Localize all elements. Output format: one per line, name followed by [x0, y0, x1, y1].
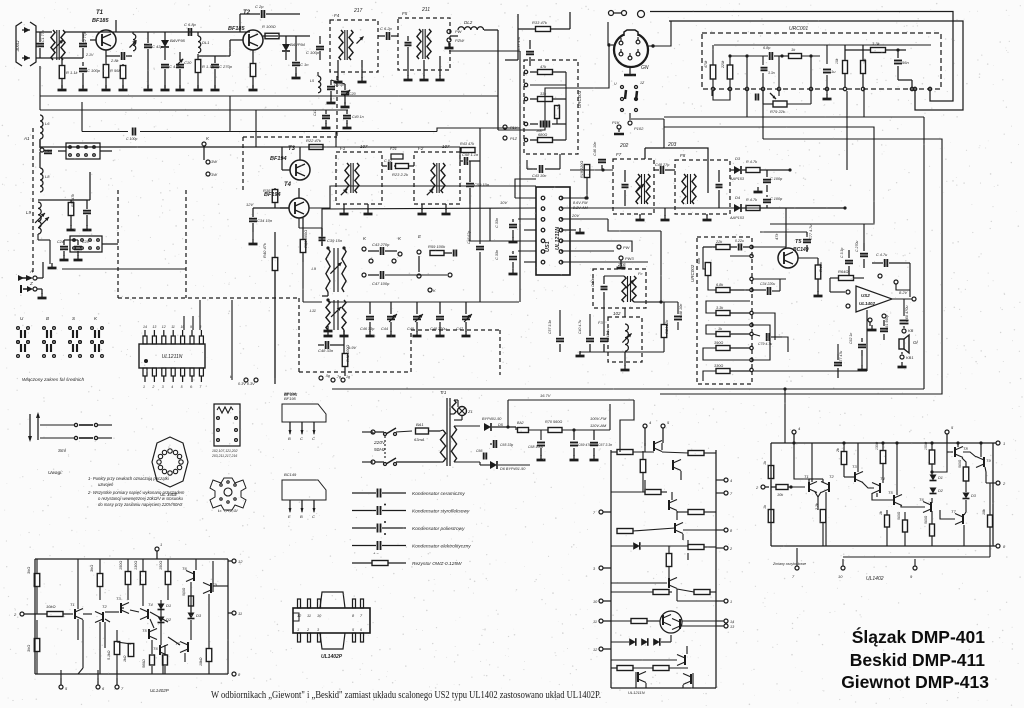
svg-text:R33 47k: R33 47k — [532, 20, 548, 25]
svg-text:BA2: BA2 — [517, 421, 524, 425]
svg-text:C77 47u: C77 47u — [839, 351, 843, 364]
svg-text:.7g: .7g — [336, 375, 341, 379]
svg-text:C66: C66 — [476, 449, 482, 453]
svg-text:B: B — [300, 514, 303, 519]
svg-text:BC149: BC149 — [284, 472, 297, 477]
svg-text:S: S — [72, 316, 75, 321]
svg-text:C48 10n: C48 10n — [679, 304, 683, 318]
svg-text:10: 10 — [838, 574, 843, 579]
svg-text:L11: L11 — [310, 308, 316, 313]
svg-text:BF185: BF185 — [228, 26, 245, 32]
svg-text:C46 10n: C46 10n — [593, 142, 597, 156]
svg-text:BF195: BF195 — [284, 396, 297, 401]
svg-text:R22 47k: R22 47k — [306, 138, 322, 143]
svg-text:R41 100Ω: R41 100Ω — [346, 345, 350, 362]
svg-text:C 270p: C 270p — [219, 64, 233, 69]
svg-text:56n: 56n — [902, 60, 909, 65]
svg-text:L5: L5 — [310, 79, 314, 83]
svg-text:KB: KB — [908, 328, 914, 333]
svg-text:Ślązak DMP-401: Ślązak DMP-401 — [852, 626, 986, 647]
svg-text:C61 560p: C61 560p — [885, 315, 889, 330]
svg-text:Kondensator styrofleksowy: Kondensator styrofleksowy — [412, 509, 470, 515]
svg-text:Zmiany oscyloskowe: Zmiany oscyloskowe — [772, 562, 806, 566]
svg-text:R79 22k: R79 22k — [770, 109, 786, 114]
svg-text:10kΩ: 10kΩ — [199, 657, 203, 666]
svg-text:Ż1: Ż1 — [467, 409, 473, 414]
svg-text:47k: 47k — [774, 233, 779, 240]
svg-text:B: B — [288, 436, 291, 441]
svg-text:T6: T6 — [153, 646, 158, 651]
svg-text:DL1: DL1 — [202, 40, 209, 45]
svg-text:4: 4 — [730, 479, 732, 483]
svg-text:6.8k: 6.8k — [716, 283, 724, 287]
svg-text:BYP401-50: BYP401-50 — [482, 417, 502, 421]
svg-text:R38: R38 — [263, 188, 271, 193]
svg-text:.5g: .5g — [325, 374, 330, 378]
svg-text:K10: K10 — [45, 148, 53, 153]
svg-text:C42 1u: C42 1u — [606, 329, 610, 340]
svg-text:C77 4.7u: C77 4.7u — [809, 224, 813, 240]
svg-text:16.7V: 16.7V — [540, 393, 551, 398]
svg-text:560Ω: 560Ω — [924, 515, 928, 524]
svg-text:11: 11 — [593, 620, 597, 624]
svg-text:BA1: BA1 — [416, 422, 424, 427]
svg-text:C48 220u: C48 220u — [430, 327, 447, 331]
svg-text:C 270u: C 270u — [855, 241, 859, 252]
svg-text:2.1V: 2.1V — [85, 53, 94, 57]
svg-text:KB1: KB1 — [906, 355, 914, 360]
svg-text:560Ω: 560Ω — [958, 459, 962, 468]
svg-text:12: 12 — [238, 559, 243, 564]
svg-text:T6: T6 — [182, 566, 187, 571]
svg-text:AAP153: AAP153 — [729, 177, 745, 181]
svg-text:Kondensator ceramiczny: Kondensator ceramiczny — [412, 491, 465, 497]
svg-text:R 10k: R 10k — [819, 261, 823, 272]
svg-text:T8: T8 — [963, 446, 968, 451]
svg-text:6.8p: 6.8p — [763, 46, 770, 50]
svg-text:L9: L9 — [312, 266, 317, 271]
svg-text:3kΩ: 3kΩ — [26, 645, 31, 652]
svg-text:5: 5 — [181, 385, 183, 389]
svg-text:T1: T1 — [70, 602, 75, 607]
svg-text:BF185: BF185 — [92, 18, 109, 24]
svg-text:211: 211 — [421, 7, 430, 13]
svg-text:203,211,217,216: 203,211,217,216 — [211, 454, 237, 458]
svg-text:300Ω: 300Ω — [15, 40, 20, 52]
svg-text:T5: T5 — [795, 239, 802, 245]
svg-text:T9: T9 — [986, 458, 991, 463]
svg-text:R 4.7k: R 4.7k — [746, 198, 758, 202]
svg-text:3.3k: 3.3k — [872, 41, 881, 46]
svg-text:14: 14 — [143, 325, 147, 329]
svg-text:Sml: Sml — [58, 448, 67, 453]
svg-text:1k: 1k — [879, 511, 883, 515]
svg-text:C67 3.3n: C67 3.3n — [598, 443, 612, 447]
svg-text:C 6.8p: C 6.8p — [184, 22, 197, 27]
svg-text:R34 22k: R34 22k — [665, 319, 669, 334]
svg-text:C 6.2p: C 6.2p — [380, 26, 393, 31]
svg-text:102,107,121,202: 102,107,121,202 — [212, 449, 238, 453]
svg-text:C45: C45 — [407, 327, 415, 331]
svg-text:1kΩ: 1kΩ — [123, 655, 127, 662]
svg-text:3.3n: 3.3n — [768, 71, 775, 75]
svg-text:F3: F3 — [598, 320, 603, 325]
svg-text:C34 220u: C34 220u — [760, 282, 775, 286]
svg-text:C40 1n: C40 1n — [352, 115, 364, 119]
svg-text:10k: 10k — [835, 58, 839, 64]
svg-text:URC002: URC002 — [690, 264, 695, 282]
svg-text:217: 217 — [353, 8, 363, 14]
svg-text:102: 102 — [613, 311, 621, 316]
svg-text:C40 4.7u: C40 4.7u — [578, 320, 582, 334]
svg-text:390Ω: 390Ω — [714, 341, 723, 345]
svg-text:T1: T1 — [96, 10, 104, 16]
svg-text:D3: D3 — [735, 156, 741, 161]
svg-text:T3: T3 — [116, 596, 121, 601]
svg-text:Rezystor OWZ-0.125W: Rezystor OWZ-0.125W — [412, 561, 462, 567]
svg-text:UL 1402: UL 1402 — [160, 492, 177, 497]
svg-text:8.6V-FM: 8.6V-FM — [573, 201, 588, 205]
svg-text:L8: L8 — [45, 174, 50, 179]
svg-text:11: 11 — [238, 611, 242, 616]
svg-text:UL1402P: UL1402P — [321, 654, 343, 660]
svg-text:P102: P102 — [634, 126, 644, 131]
svg-text:Fc: Fc — [638, 271, 642, 276]
svg-text:Giewnot DMP-413: Giewnot DMP-413 — [841, 672, 989, 692]
svg-text:T4: T4 — [284, 182, 292, 188]
svg-text:9: 9 — [190, 325, 192, 329]
svg-text:R59 100k: R59 100k — [428, 244, 446, 249]
svg-text:T6: T6 — [919, 497, 924, 502]
svg-text:GN: GN — [641, 65, 649, 71]
svg-text:T5: T5 — [888, 490, 893, 495]
svg-text:Kondensator poliestrowy: Kondensator poliestrowy — [412, 526, 465, 532]
svg-text:W odbiornikach „Giewont" i „Be: W odbiornikach „Giewont" i „Beskid" zami… — [211, 690, 601, 701]
svg-text:C 100p: C 100p — [770, 197, 782, 201]
svg-text:C47: C47 — [456, 327, 464, 331]
svg-text:C34 10n: C34 10n — [257, 218, 273, 223]
svg-text:+ −: + − — [373, 551, 379, 556]
svg-text:Beskid DMP-411: Beskid DMP-411 — [850, 650, 985, 670]
svg-text:Z: Z — [29, 281, 33, 286]
svg-text:560Ω: 560Ω — [182, 587, 186, 596]
svg-text:150Ω: 150Ω — [924, 441, 928, 450]
svg-text:C62 1n: C62 1n — [849, 333, 853, 344]
svg-text:L6: L6 — [45, 121, 50, 126]
svg-text:13: 13 — [152, 325, 156, 329]
svg-text:3.3k: 3.3k — [716, 306, 724, 310]
svg-text:R43 47k: R43 47k — [460, 142, 475, 146]
svg-text:C65 33p: C65 33p — [500, 443, 513, 447]
svg-text:uzwojeń: uzwojeń — [98, 482, 114, 487]
svg-text:C43 10n: C43 10n — [532, 174, 546, 178]
svg-text:F8: F8 — [680, 153, 686, 158]
svg-text:Tr1: Tr1 — [440, 390, 447, 395]
svg-text:11: 11 — [307, 614, 311, 618]
svg-text:3: 3 — [162, 385, 164, 389]
svg-text:PW3: PW3 — [625, 256, 634, 261]
svg-text:T2: T2 — [243, 10, 251, 16]
svg-text:Kondensator elektrolityczny: Kondensator elektrolityczny — [412, 544, 471, 550]
svg-text:C: C — [312, 514, 315, 519]
svg-text:50Hz: 50Hz — [374, 447, 386, 453]
svg-text:63mA: 63mA — [414, 437, 425, 442]
svg-text:R23 2.2k: R23 2.2k — [392, 172, 409, 177]
svg-text:130Ω: 130Ω — [875, 441, 879, 450]
svg-text:Włączony zakres fal średnich: Włączony zakres fal średnich — [22, 377, 84, 383]
svg-text:C 2p: C 2p — [255, 4, 264, 9]
svg-text:R19 220Ω: R19 220Ω — [580, 161, 584, 178]
svg-text:2: 2 — [151, 385, 154, 389]
svg-text:203: 203 — [667, 142, 677, 148]
svg-text:C 1n: C 1n — [300, 62, 309, 67]
svg-text:T3: T3 — [852, 464, 857, 469]
svg-text:2.8k: 2.8k — [110, 58, 120, 63]
svg-text:1: 1 — [1003, 441, 1005, 446]
svg-text:R39 560Ω: R39 560Ω — [303, 230, 308, 248]
svg-text:560Ω: 560Ω — [897, 511, 901, 520]
svg-text:C48 33n: C48 33n — [318, 348, 334, 353]
svg-text:BAVP95: BAVP95 — [170, 38, 186, 43]
svg-text:AAP153: AAP153 — [729, 216, 745, 220]
svg-text:1u: 1u — [831, 69, 836, 74]
svg-text:T4: T4 — [148, 602, 153, 607]
svg-text:US2: US2 — [861, 293, 870, 298]
svg-text:UL1402: UL1402 — [866, 576, 884, 582]
svg-text:C 33n: C 33n — [495, 250, 499, 260]
svg-text:C: C — [300, 436, 303, 441]
svg-text:330Ω: 330Ω — [714, 364, 723, 368]
svg-text:UL1402P: UL1402P — [150, 688, 169, 693]
svg-text:UL1211N: UL1211N — [628, 690, 645, 695]
svg-text:110V-AM: 110V-AM — [590, 423, 607, 428]
svg-text:10k: 10k — [982, 509, 986, 515]
svg-text:T5: T5 — [142, 628, 147, 633]
svg-text:C 100p: C 100p — [306, 50, 320, 55]
svg-text:do masy przy zasilaniu napięci: do masy przy zasilaniu napięciem 220V/50… — [98, 502, 183, 507]
svg-text:680Ω: 680Ω — [538, 133, 547, 137]
svg-text:1: 1 — [160, 542, 162, 547]
svg-text:C57 3.3n: C57 3.3n — [548, 320, 552, 334]
svg-text:10V: 10V — [500, 200, 507, 205]
svg-text:D6 BYP401-50: D6 BYP401-50 — [500, 467, 526, 471]
svg-text:F5: F5 — [402, 11, 408, 16]
svg-text:Uwagi:: Uwagi: — [48, 470, 63, 476]
svg-text:L9: L9 — [26, 210, 32, 215]
svg-text:12V: 12V — [246, 202, 253, 207]
svg-text:R 1.1k: R 1.1k — [66, 70, 79, 75]
svg-text:URC003: URC003 — [577, 90, 582, 108]
svg-text:C20: C20 — [349, 92, 356, 96]
svg-text:C69 47u: C69 47u — [578, 443, 591, 447]
svg-text:C 10n: C 10n — [591, 278, 595, 287]
svg-text:P1K: P1K — [612, 120, 620, 125]
svg-text:US1: US1 — [545, 241, 551, 252]
svg-text:22k: 22k — [715, 240, 723, 244]
svg-text:6: 6 — [190, 385, 192, 389]
svg-text:4: 4 — [171, 385, 173, 389]
svg-text:12: 12 — [162, 325, 166, 329]
svg-text:T7: T7 — [951, 509, 956, 514]
svg-text:C 33n: C 33n — [495, 218, 499, 228]
svg-text:C1 77p: C1 77p — [41, 30, 45, 42]
svg-text:UL1211N: UL1211N — [162, 354, 183, 360]
svg-text:C10: C10 — [184, 60, 192, 65]
svg-text:UL1211N: UL1211N — [555, 226, 561, 250]
svg-text:B: B — [46, 316, 49, 321]
svg-text:C41: C41 — [313, 110, 317, 116]
svg-text:T2: T2 — [102, 604, 107, 609]
svg-text:C60 470u: C60 470u — [905, 305, 909, 322]
svg-text:1: 1 — [143, 385, 145, 389]
svg-text:202: 202 — [619, 143, 629, 149]
svg-text:UL1402: UL1402 — [859, 301, 876, 306]
svg-text:R64Ω: R64Ω — [838, 269, 848, 274]
svg-text:C44: C44 — [381, 327, 388, 331]
svg-text:10k: 10k — [863, 58, 867, 64]
svg-text:F7: F7 — [616, 152, 622, 157]
svg-text:5.1kΩ: 5.1kΩ — [107, 650, 111, 660]
svg-text:R36 47k: R36 47k — [71, 194, 75, 207]
svg-text:Łr. T,R,Ż,Gł: Łr. T,R,Ż,Gł — [218, 509, 237, 513]
svg-text:C43 270p: C43 270p — [372, 242, 390, 247]
svg-text:BF194: BF194 — [270, 156, 287, 162]
svg-text:C68 100u: C68 100u — [528, 445, 543, 449]
svg-text:150Ω: 150Ω — [159, 561, 163, 570]
svg-text:130Ω: 130Ω — [134, 561, 138, 570]
svg-text:P1Z: P1Z — [510, 137, 518, 141]
svg-text:C24: C24 — [57, 240, 64, 244]
svg-text:C39 15n: C39 15n — [327, 238, 343, 243]
svg-text:A: A — [29, 269, 33, 274]
svg-text:150Ω: 150Ω — [119, 561, 123, 570]
svg-text:C48 27p: C48 27p — [655, 163, 669, 167]
svg-text:D3: D3 — [196, 613, 202, 618]
svg-text:E: E — [288, 514, 291, 519]
svg-text:8.2V: 8.2V — [899, 290, 908, 295]
svg-text:1: 1 — [297, 628, 299, 632]
svg-text:20V: 20V — [571, 213, 579, 218]
svg-text:D1: D1 — [166, 603, 171, 608]
svg-text:K: K — [433, 288, 436, 293]
svg-text:C 82: C 82 — [384, 159, 393, 163]
svg-text:R 100Ω: R 100Ω — [262, 24, 276, 29]
svg-text:T2: T2 — [829, 474, 834, 479]
svg-text:10kΩ: 10kΩ — [46, 604, 56, 609]
svg-text:2k: 2k — [836, 448, 840, 453]
svg-text:T1: T1 — [804, 474, 809, 479]
svg-text:C 3.3p: C 3.3p — [840, 248, 844, 258]
svg-text:220V: 220V — [373, 440, 386, 446]
svg-text:100V-FM: 100V-FM — [590, 416, 607, 421]
svg-text:C 4.7u: C 4.7u — [876, 253, 888, 257]
svg-text:C47 100p: C47 100p — [372, 281, 390, 286]
svg-text:DL2: DL2 — [464, 20, 473, 25]
svg-text:C2 77p: C2 77p — [83, 32, 87, 44]
svg-text:C 100p: C 100p — [770, 177, 782, 181]
svg-text:R 4.7k: R 4.7k — [746, 160, 758, 164]
svg-text:C 100p: C 100p — [87, 68, 101, 73]
svg-text:C46 33p: C46 33p — [360, 327, 374, 331]
svg-text:0.3V 0.3V: 0.3V 0.3V — [238, 382, 255, 386]
svg-text:C 100p: C 100p — [126, 137, 137, 141]
svg-text:3kΩ: 3kΩ — [26, 567, 31, 574]
svg-text:470k: 470k — [704, 60, 708, 68]
svg-text:R40 47k: R40 47k — [262, 242, 267, 258]
svg-text:URC001: URC001 — [789, 26, 808, 32]
svg-text:BAVP94: BAVP94 — [290, 42, 306, 47]
svg-text:F4: F4 — [334, 13, 340, 18]
svg-text:11: 11 — [171, 325, 175, 329]
svg-text:216: 216 — [617, 262, 626, 267]
svg-text:D1: D1 — [938, 476, 943, 480]
svg-text:220k: 220k — [721, 60, 725, 69]
svg-text:1: 1 — [730, 600, 732, 604]
svg-text:560Ω: 560Ω — [142, 659, 146, 668]
svg-text:1- Punkty przy cewkach oznacz: 1- Punkty przy cewkach oznaczają początk… — [88, 476, 170, 481]
svg-text:A1: A1 — [23, 136, 30, 141]
svg-text:BF194: BF194 — [284, 391, 297, 396]
svg-text:0.22u: 0.22u — [735, 239, 744, 243]
svg-text:D4: D4 — [735, 195, 741, 200]
svg-text:1g: 1g — [346, 375, 350, 379]
